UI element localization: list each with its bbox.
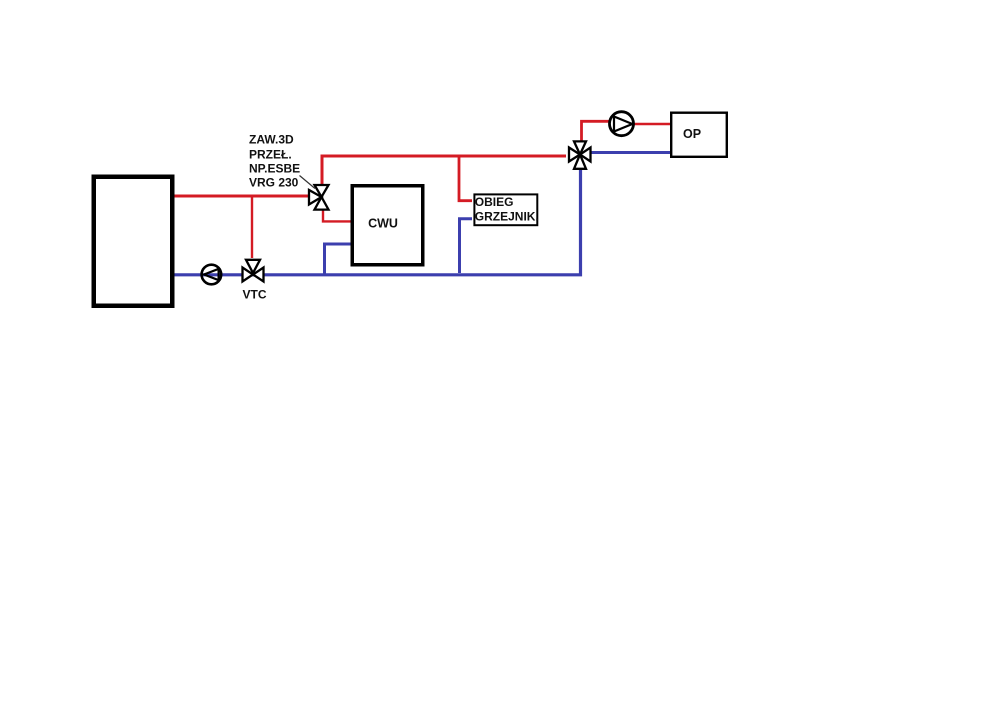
- svg-text:VTC: VTC: [243, 288, 267, 302]
- svg-text:NP.ESBE: NP.ESBE: [249, 161, 300, 175]
- svg-text:ZAW.3D: ZAW.3D: [249, 132, 294, 146]
- svg-text:OBIEG: OBIEG: [475, 195, 514, 209]
- svg-text:OP: OP: [683, 127, 701, 141]
- svg-text:GRZEJNIK.: GRZEJNIK.: [475, 210, 539, 224]
- svg-text:CWU: CWU: [368, 217, 398, 231]
- svg-text:VRG 230: VRG 230: [249, 176, 299, 190]
- svg-text:PRZEŁ.: PRZEŁ.: [249, 147, 292, 161]
